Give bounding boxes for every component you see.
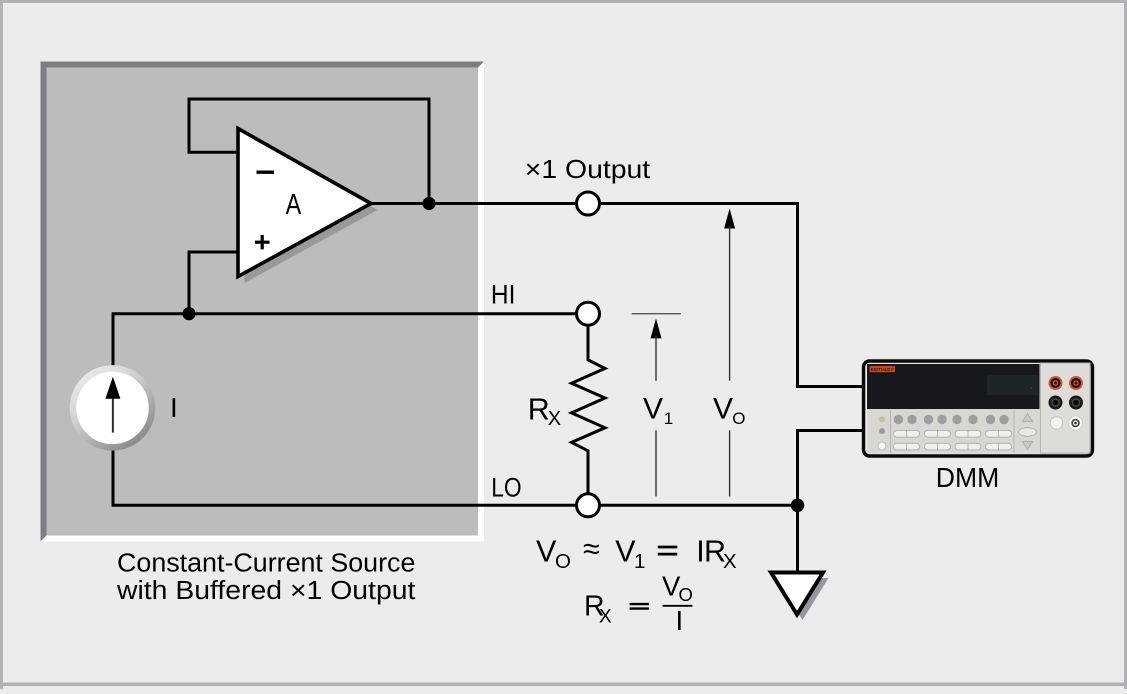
svg-text:≈: ≈ (583, 532, 600, 566)
svg-text:X: X (548, 408, 561, 430)
svg-text:A: A (286, 189, 302, 221)
display (867, 364, 1040, 409)
wire: HI rail, current-source loop and LO rail (113, 314, 798, 506)
svg-text:LO: LO (491, 473, 521, 503)
svg-text:O: O (679, 584, 693, 605)
label: RX (528, 393, 561, 431)
svg-text:HI: HI (491, 280, 516, 310)
svg-text:DMM: DMM (936, 462, 1000, 493)
DMM instrument (864, 361, 1093, 456)
wire: feedback loop from op-amp inverting input to output node (189, 99, 429, 204)
resistor RX (572, 326, 606, 495)
V1 measurement arrow (632, 314, 681, 497)
node: LO junction dot (791, 499, 805, 513)
svg-text:×1 Output: ×1 Output (525, 154, 651, 184)
node: output junction dot (422, 197, 435, 210)
op-amp U1 (238, 129, 371, 277)
label: DMM (936, 462, 1000, 493)
svg-text:KEITHLEY: KEITHLEY (871, 367, 894, 372)
svg-text:X: X (599, 607, 612, 628)
svg-text:O: O (555, 550, 571, 573)
ground shadow (777, 578, 829, 620)
KEITHLEY badge (870, 366, 896, 372)
terminal: HI open circle (577, 302, 600, 325)
label: VO (713, 393, 746, 429)
terminal: LO open circle (577, 494, 600, 517)
label: HI (491, 280, 516, 310)
svg-text:I: I (170, 392, 178, 423)
svg-text:R: R (528, 393, 550, 427)
node: non-inverting input junction dot (182, 307, 195, 320)
label: LO (491, 473, 521, 503)
svg-text:V: V (536, 534, 557, 568)
up/down keys (1022, 414, 1032, 422)
input jacks (1049, 376, 1084, 430)
wire: op-amp output to right vertical (371, 202, 798, 205)
svg-text:1: 1 (634, 550, 645, 573)
op-amp U1 shadow (245, 135, 378, 283)
svg-text:X: X (723, 550, 737, 573)
svg-text:O: O (732, 409, 745, 428)
svg-text:I: I (676, 605, 684, 636)
button panel (867, 410, 1040, 453)
svg-text:1: 1 (664, 409, 673, 428)
svg-text:V: V (643, 393, 663, 426)
svg-text:with Buffered ×1 Output: with Buffered ×1 Output (116, 577, 416, 605)
label: V1 (643, 393, 673, 429)
constant-current source enclosure box (41, 62, 485, 542)
current source I (73, 368, 178, 447)
formula: VO approx V1 = I RX (536, 532, 737, 573)
jack panel (1041, 363, 1091, 453)
terminal: x1 Output open circle (577, 192, 600, 215)
wire: output vertical down and stub into DMM upper terminal (798, 202, 865, 387)
wire: non-inverting input down to HI node (189, 252, 238, 314)
wire: DMM lower terminal stub, down through LO junction to ground (798, 431, 865, 573)
formula: RX = VO / I (584, 570, 693, 636)
VO measurement arrow (724, 209, 735, 497)
caption: Constant-Current Source with Buffered x1 Output (116, 550, 416, 605)
label: x1 Output (525, 154, 651, 184)
svg-text:Constant-Current Source: Constant-Current Source (117, 550, 415, 578)
ground (771, 573, 823, 615)
svg-text:V: V (713, 393, 733, 426)
